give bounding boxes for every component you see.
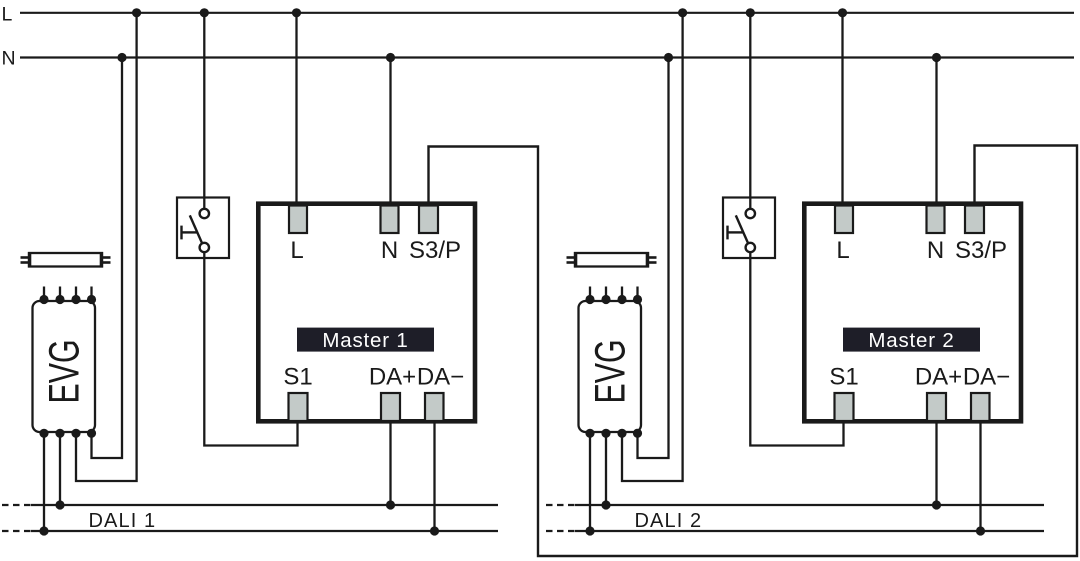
svg-text:S3/P: S3/P [955,237,1007,264]
svg-text:Master 1: Master 1 [322,329,408,352]
svg-text:EVG: EVG [587,339,634,403]
svg-text:DA+: DA+ [915,364,962,391]
svg-text:L: L [290,237,303,264]
svg-text:DA−: DA− [417,364,464,391]
svg-text:N: N [381,237,398,264]
svg-text:L: L [836,237,849,264]
svg-text:N: N [2,48,16,70]
svg-text:Master 2: Master 2 [868,329,954,352]
svg-text:N: N [927,237,944,264]
svg-text:S1: S1 [283,364,312,391]
svg-text:DALI 2: DALI 2 [635,510,703,532]
svg-text:S1: S1 [829,364,858,391]
svg-text:S3/P: S3/P [409,237,461,264]
svg-text:L: L [2,4,13,26]
svg-text:DALI 1: DALI 1 [89,510,157,532]
svg-text:DA+: DA+ [369,364,416,391]
svg-text:EVG: EVG [41,339,88,403]
svg-text:DA−: DA− [963,364,1010,391]
